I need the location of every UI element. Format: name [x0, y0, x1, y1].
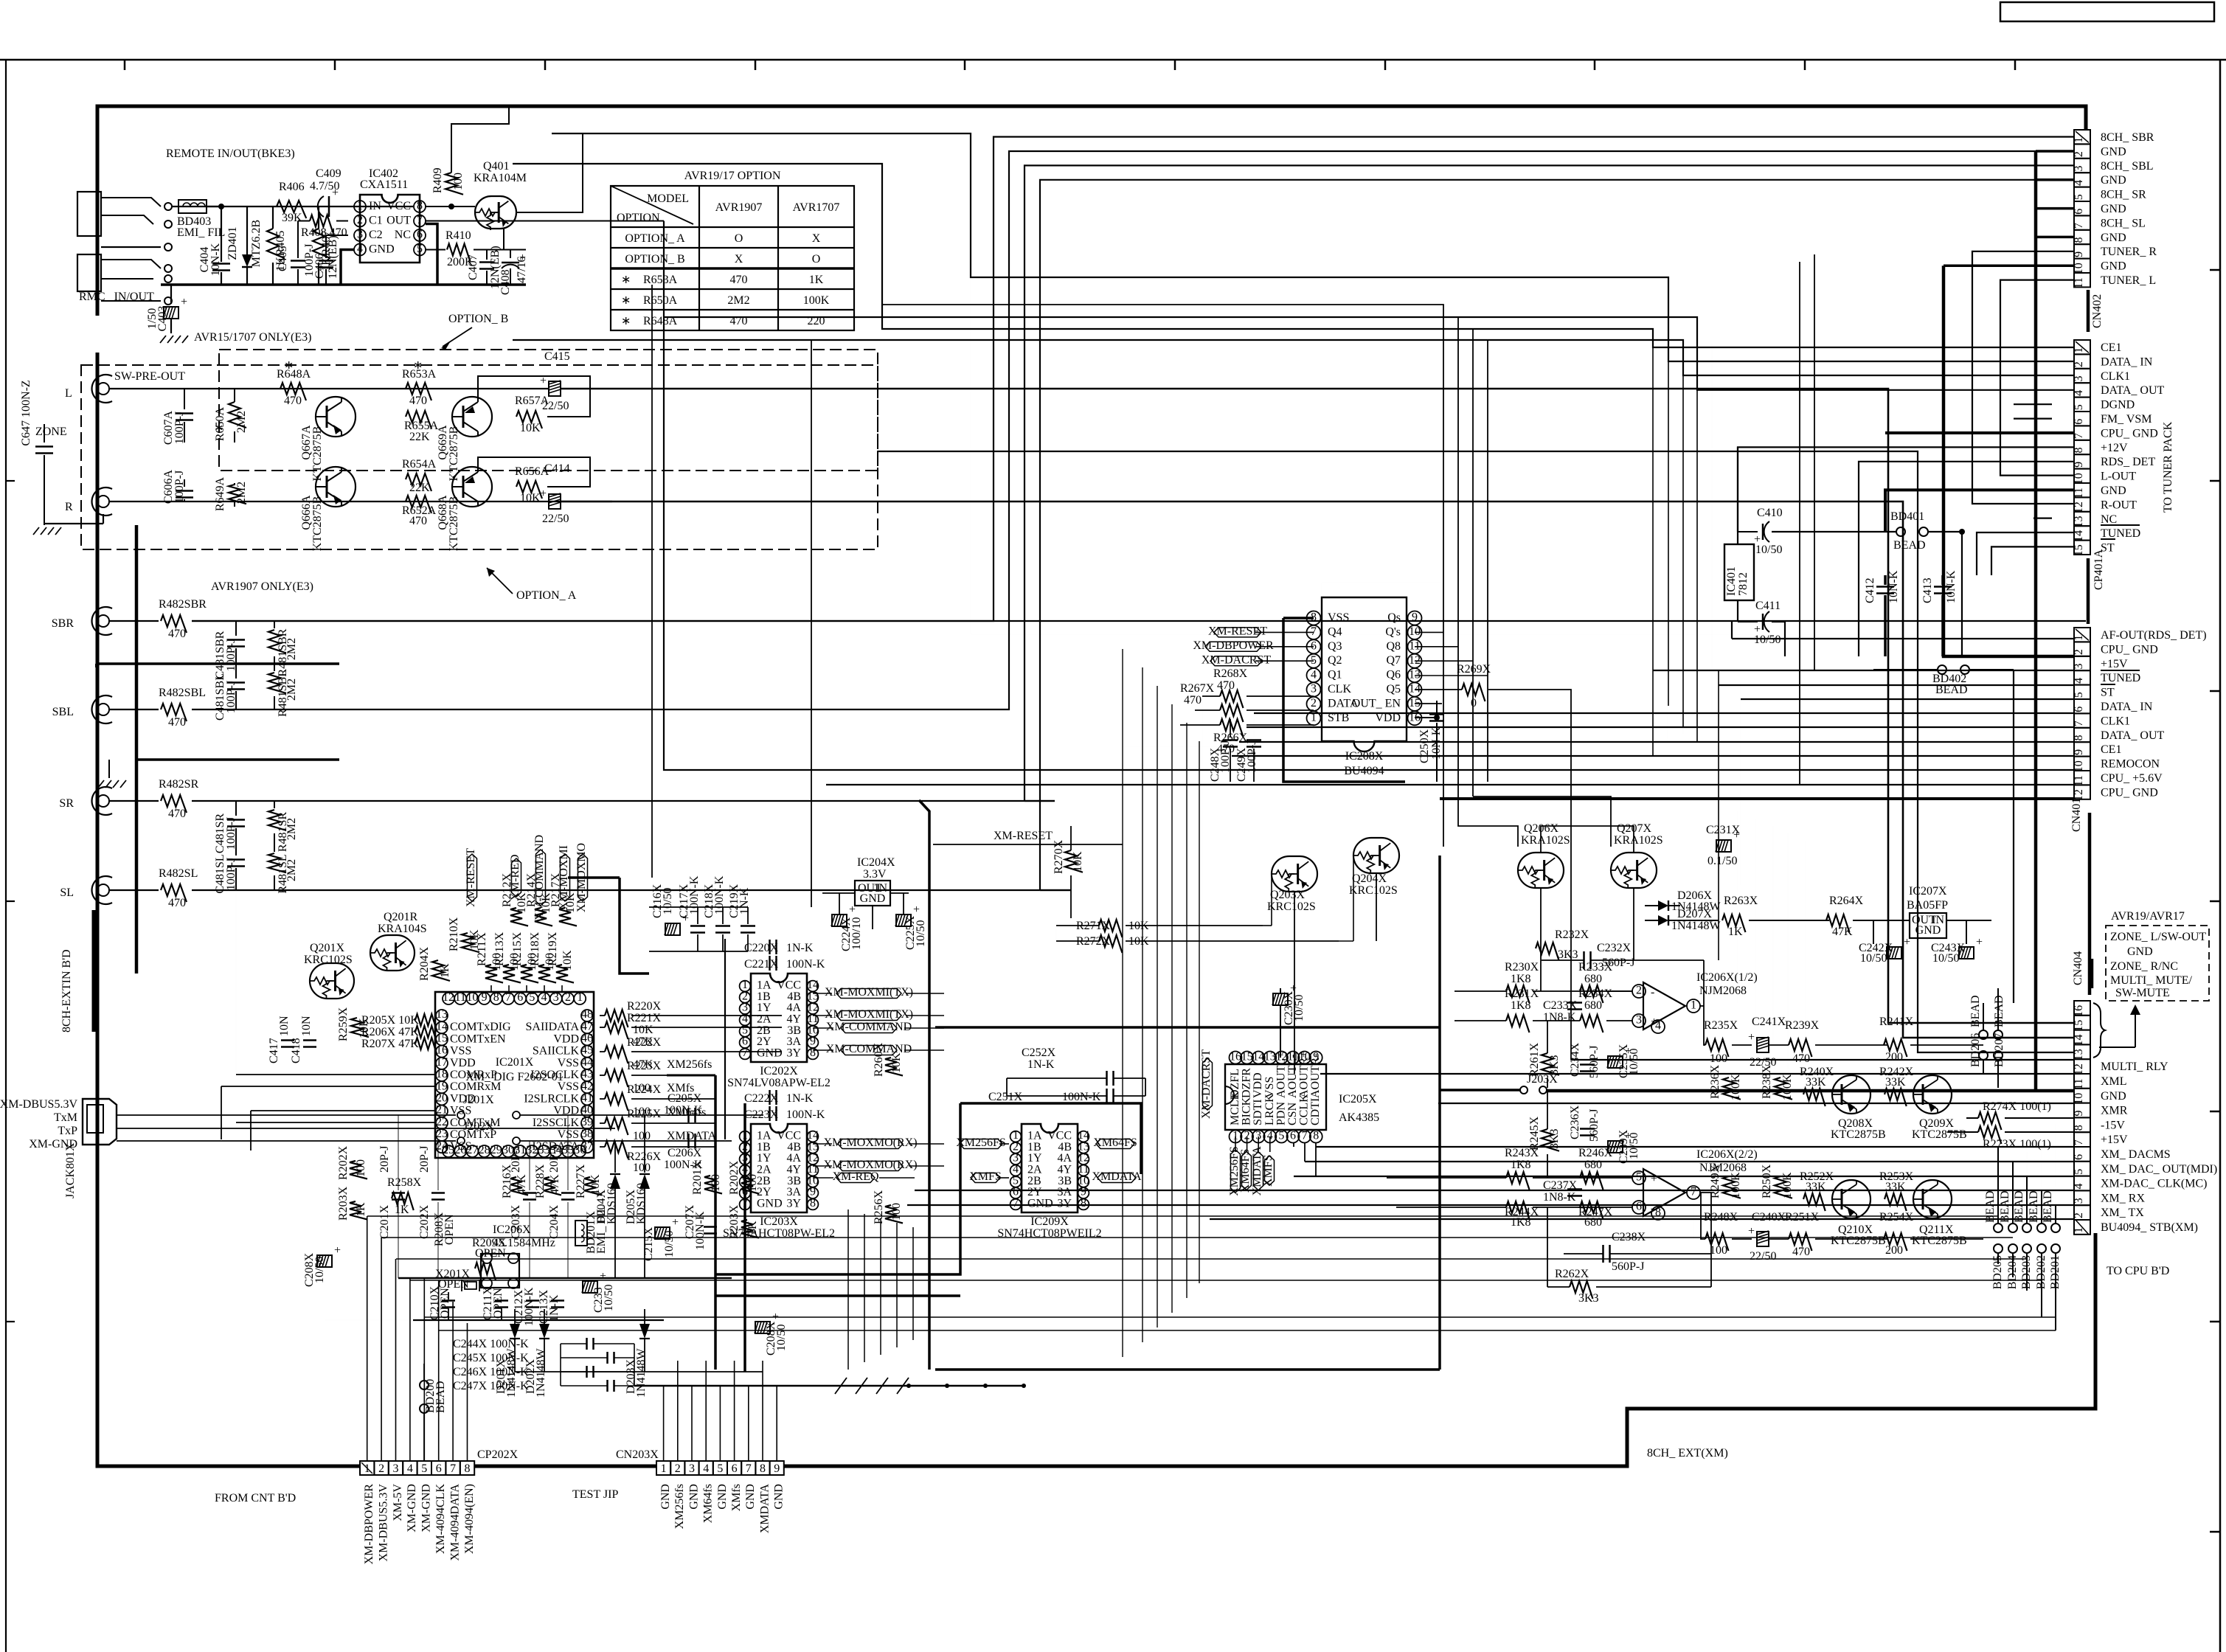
- wire net 8CH GND bus: [2034, 151, 2038, 1091]
- wire net +15V drop: [1718, 670, 1719, 960]
- svg-text:CE1: CE1: [2101, 743, 2121, 756]
- wire SR row right: [192, 800, 1055, 802]
- svg-text:VSS: VSS: [1328, 611, 1349, 624]
- wire bead link: [2012, 1162, 2014, 1224]
- svg-text:0.1/50: 0.1/50: [1707, 855, 1737, 867]
- wire R271X vertical joins: [1055, 926, 1057, 941]
- svg-text:XM64fs: XM64fs: [702, 1484, 715, 1523]
- svg-text:1N-K: 1N-K: [786, 942, 814, 954]
- svg-text:100P-J: 100P-J: [225, 681, 237, 713]
- svg-text:KRA102S: KRA102S: [1521, 834, 1570, 847]
- wires CN203X up: [663, 1386, 665, 1461]
- wire net TUNER_L: [2000, 280, 2074, 476]
- svg-text:C252X: C252X: [1022, 1047, 1056, 1059]
- svg-text:TUNER_ R: TUNER_ R: [2101, 246, 2157, 258]
- svg-text:GND: GND: [1027, 1198, 1053, 1210]
- wire Q203X emitter down: [1294, 892, 1295, 1074]
- pin IC201X-36: [574, 1145, 586, 1157]
- svg-text:680: 680: [1584, 999, 1602, 1012]
- svg-text:AF-OUT(RDS_ DET): AF-OUT(RDS_ DET): [2101, 629, 2207, 642]
- svg-text:GND: GND: [369, 243, 395, 256]
- svg-text:GND: GND: [687, 1484, 700, 1510]
- pin IC201X-48: [581, 1010, 593, 1021]
- svg-text:R202X: R202X: [337, 1145, 350, 1180]
- bracket CN404 pins 16-13: [2093, 1003, 2105, 1058]
- svg-text:GND: GND: [757, 1198, 783, 1210]
- svg-text:1N-K: 1N-K: [1027, 1058, 1055, 1071]
- svg-text:BEAD: BEAD: [1984, 1190, 1997, 1223]
- svg-text:R482SBL: R482SBL: [159, 687, 206, 699]
- svg-text:AVR19/17 OPTION: AVR19/17 OPTION: [684, 170, 781, 182]
- svg-text:XMfs: XMfs: [730, 1484, 743, 1511]
- svg-text:+: +: [1651, 1173, 1657, 1185]
- svg-text:XM_ DACMS: XM_ DACMS: [2101, 1148, 2171, 1161]
- wire bead lower link: [2026, 1253, 2028, 1291]
- svg-text:7: 7: [450, 1462, 456, 1475]
- ground left: [44, 472, 45, 525]
- zener ZD401 MTZ6.2B: [246, 206, 248, 254]
- svg-text:R258X: R258X: [387, 1176, 422, 1189]
- svg-text:OPTION_ A: OPTION_ A: [516, 589, 577, 602]
- pin IC201X-43: [581, 1069, 593, 1081]
- svg-text:VSS: VSS: [450, 1140, 471, 1153]
- svg-text:OPEN: OPEN: [492, 1288, 505, 1319]
- svg-text:29: 29: [490, 1144, 502, 1156]
- svg-text:10K: 10K: [358, 1018, 370, 1038]
- net flag XM-MOXMI(TX) b: [836, 1011, 901, 1021]
- arrow zone labels to CN404: [2135, 1010, 2136, 1047]
- svg-text:XM-RESET: XM-RESET: [1208, 625, 1267, 638]
- svg-text:IC208X: IC208X: [1345, 750, 1384, 763]
- svg-text:R215X: R215X: [511, 931, 524, 966]
- svg-text:XMFS: XMFS: [969, 1170, 1002, 1183]
- svg-text:Q201R: Q201R: [384, 911, 418, 923]
- svg-text:10/50: 10/50: [1628, 1049, 1640, 1075]
- pin IC201X-34: [550, 1145, 562, 1157]
- svg-text:COMTxEN: COMTxEN: [450, 1032, 506, 1045]
- wire long bottom 2: [381, 1237, 2013, 1238]
- svg-text:VSS: VSS: [450, 1045, 471, 1058]
- page border top: [0, 59, 2226, 61]
- svg-text:7: 7: [2073, 721, 2085, 726]
- wire net XM_DAC_CLK: [1294, 1176, 2074, 1177]
- capacitor C219X 1N-K: [747, 907, 749, 924]
- svg-text:20: 20: [436, 1091, 448, 1104]
- capacitor C405: [297, 221, 299, 259]
- svg-text:2M2: 2M2: [727, 294, 749, 307]
- svg-text:XM_ DAC_ OUT(MDI): XM_ DAC_ OUT(MDI): [2101, 1163, 2217, 1176]
- svg-text:470: 470: [409, 395, 427, 407]
- svg-text:Q4: Q4: [1328, 625, 1342, 638]
- svg-text:XM-RESET: XM-RESET: [465, 848, 477, 907]
- connector CN402: [2074, 130, 2090, 144]
- svg-text:2M2: 2M2: [235, 482, 248, 504]
- svg-text:MTZ6.2B: MTZ6.2B: [250, 220, 263, 267]
- wire vert right x2440: [1799, 262, 1800, 785]
- pin IC402-1 IN: [354, 201, 366, 212]
- net flag XM256FS IC209X: [960, 1139, 1002, 1149]
- svg-text:1K: 1K: [355, 1202, 367, 1217]
- svg-text:3: 3: [393, 1462, 399, 1475]
- svg-text:KRA104M: KRA104M: [474, 172, 527, 184]
- wire Q401 out right: [516, 133, 583, 212]
- svg-text:FM_ VSM: FM_ VSM: [2101, 413, 2152, 426]
- pin IC201X-38: [581, 1129, 593, 1141]
- svg-text:CLK: CLK: [1328, 683, 1351, 695]
- svg-text:OUT: OUT: [386, 215, 411, 227]
- wire bead3 up to CN404: [2026, 1152, 2028, 1232]
- svg-text:J203X: J203X: [1527, 1073, 1558, 1086]
- pin IC402-5: [414, 244, 426, 256]
- pin IC201X-21: [436, 1106, 448, 1117]
- svg-text:IC401: IC401: [1725, 566, 1738, 596]
- diodes D201X D202X D203X 1N4148W: [514, 1278, 516, 1331]
- svg-text:TUNED: TUNED: [2101, 672, 2140, 684]
- cable bar CP401A: [2087, 558, 2090, 624]
- svg-text:D207X: D207X: [1677, 908, 1713, 920]
- svg-text:3K3: 3K3: [1548, 1055, 1561, 1075]
- svg-text:XM-DBUS5.3V: XM-DBUS5.3V: [377, 1484, 389, 1562]
- pin IC201X-13: [436, 1010, 448, 1021]
- svg-text:R482SR: R482SR: [159, 778, 199, 791]
- svg-text:R245X: R245X: [1528, 1116, 1541, 1150]
- svg-text:C247X 100N-K: C247X 100N-K: [453, 1380, 529, 1392]
- svg-text:C201X: C201X: [378, 1204, 391, 1239]
- wire net CPU_GND CP401A: [1885, 431, 2074, 434]
- svg-text:L: L: [65, 387, 72, 400]
- transistor Q668A KTC2875B: [452, 467, 492, 507]
- svg-text:C414: C414: [544, 462, 570, 475]
- wire net ZONE_L/SW-OUT: [561, 389, 2074, 1023]
- jack RMC bottom: [77, 254, 101, 291]
- svg-text:680: 680: [1584, 973, 1602, 985]
- svg-text:10/50: 10/50: [1754, 634, 1781, 646]
- svg-text:470: 470: [1792, 1052, 1810, 1065]
- svg-text:XM-GND: XM-GND: [420, 1484, 433, 1533]
- svg-text:43: 43: [581, 1068, 593, 1080]
- svg-text:XMDATA: XMDATA: [758, 1484, 771, 1534]
- wire R row: [109, 501, 612, 502]
- svg-text:13: 13: [1264, 1050, 1276, 1063]
- wire net TUNER_R: [1972, 251, 2074, 504]
- svg-text:CLK1: CLK1: [2101, 370, 2130, 383]
- svg-text:6: 6: [417, 228, 423, 240]
- svg-text:100N-K: 100N-K: [786, 958, 825, 971]
- pin IC208X-4 Q1: [1307, 668, 1321, 682]
- IC IC209X SN74HCT08PWEIL2: [1022, 1124, 1078, 1212]
- svg-text:BEAD: BEAD: [2028, 1190, 2040, 1223]
- svg-text:XM-DBUS5.3V: XM-DBUS5.3V: [0, 1098, 77, 1111]
- svg-text:GND: GND: [744, 1484, 757, 1510]
- svg-text:8CH_ SL: 8CH_ SL: [2101, 217, 2146, 229]
- wire net DATA_IN CN401: [1254, 712, 2074, 714]
- net flag XM-REQ: [836, 1173, 875, 1183]
- svg-text:IC202X: IC202X: [760, 1065, 798, 1077]
- net flag XM-COMMAND a: [841, 1024, 897, 1033]
- svg-text:39: 39: [581, 1116, 593, 1128]
- jack RMC top: [77, 192, 101, 236]
- svg-text:R: R: [65, 501, 73, 513]
- capacitor C408 12N(EB) 47/16: [510, 250, 511, 259]
- svg-text:GND: GND: [2101, 174, 2126, 187]
- svg-text:R650A: R650A: [643, 294, 678, 307]
- pin IC205X-2 BICK: [1241, 1131, 1253, 1143]
- svg-text:100K: 100K: [1781, 1074, 1794, 1100]
- svg-text:44: 44: [581, 1056, 593, 1069]
- wire net XM_DACMS: [1316, 1146, 2074, 1148]
- svg-text:C405: C405: [277, 246, 289, 271]
- svg-text:XM-MOXMO(RX): XM-MOXMO(RX): [823, 1136, 917, 1149]
- bus slashes: [835, 1378, 847, 1394]
- wire SBR row to bundle: [192, 620, 819, 622]
- svg-text:+: +: [1733, 829, 1740, 841]
- svg-text:MULTI_ MUTE/: MULTI_ MUTE/: [2110, 974, 2193, 987]
- wire bead BD206 up: [1983, 1003, 1984, 1030]
- svg-text:R254X: R254X: [1879, 1211, 1914, 1224]
- svg-text:KTC2875B: KTC2875B: [1831, 1128, 1886, 1141]
- capacitor C215X 10/50: [655, 1227, 670, 1239]
- svg-text:AK4385: AK4385: [1339, 1111, 1379, 1124]
- wire net ST CN401: [1741, 698, 2074, 700]
- bead BD402: [1938, 665, 1946, 674]
- wire bead link: [2026, 1176, 2028, 1224]
- svg-text:R211X: R211X: [476, 932, 488, 966]
- wire net CLK1 CN401 drop: [1682, 375, 1684, 720]
- svg-text:CP401A: CP401A: [2092, 549, 2105, 590]
- wire osc bottom rail: [413, 1319, 664, 1321]
- svg-text:SAIICLK: SAIICLK: [533, 1045, 580, 1058]
- svg-text:XM-4094(EN): XM-4094(EN): [463, 1484, 476, 1554]
- pin IC208X-14 Q5: [1408, 683, 1422, 697]
- resistor R482SR 470: [109, 800, 159, 802]
- svg-text:R653A: R653A: [402, 368, 437, 381]
- svg-text:8: 8: [2073, 448, 2085, 454]
- svg-text:R262X: R262X: [1555, 1268, 1589, 1280]
- svg-text:SBL: SBL: [52, 706, 74, 718]
- wire QFP left verticals: [235, 890, 237, 1075]
- svg-text:XM-DBPOWER: XM-DBPOWER: [363, 1484, 375, 1565]
- svg-text:CN203X: CN203X: [616, 1448, 659, 1461]
- wire IC207X rails: [1873, 920, 1874, 944]
- svg-text:1N-K: 1N-K: [738, 887, 751, 914]
- pin IC201X-22: [436, 1117, 448, 1129]
- diode D201X 1N4148W: [514, 1309, 516, 1324]
- svg-text:470: 470: [409, 515, 427, 527]
- connector CN404: [2074, 1001, 2090, 1016]
- svg-text:BD207: BD207: [1993, 1033, 2005, 1067]
- resistor R481SBL 2M2: [274, 664, 275, 671]
- svg-text:5: 5: [529, 991, 535, 1004]
- svg-text:TxM: TxM: [54, 1111, 77, 1124]
- wire vert bundle x2017: [1254, 340, 1488, 782]
- pin IC201X-37: [581, 1141, 593, 1153]
- svg-text:R246X: R246X: [1578, 1147, 1613, 1159]
- svg-text:KTC2875B: KTC2875B: [1831, 1235, 1886, 1247]
- svg-text:100K: 100K: [803, 294, 830, 307]
- svg-text:7: 7: [746, 1462, 752, 1475]
- wire SBR gnd row: [96, 662, 339, 665]
- svg-text:BA05FP: BA05FP: [1907, 899, 1948, 912]
- svg-text:6: 6: [1290, 1129, 1296, 1142]
- svg-text:XMFS: XMFS: [1262, 1154, 1275, 1187]
- wire thick horizontal lower: [935, 1368, 1440, 1371]
- svg-text:AVR19/AVR17: AVR19/AVR17: [2111, 910, 2185, 923]
- svg-text:RDS_ DET: RDS_ DET: [2101, 456, 2155, 468]
- pin IC201X-12: [443, 993, 454, 1004]
- svg-text:R223X: R223X: [627, 1060, 662, 1072]
- capacitor C235X 10/50: [1608, 1056, 1623, 1068]
- svg-text:7: 7: [2073, 223, 2085, 229]
- transistor Q666A KTC2875B: [316, 467, 356, 507]
- regulator IC401 7812: [1724, 544, 1754, 600]
- svg-text:6: 6: [732, 1462, 738, 1475]
- pin IC201X-8: [490, 993, 502, 1004]
- svg-text:15: 15: [1241, 1050, 1253, 1063]
- svg-text:2: 2: [675, 1462, 681, 1475]
- diode D203X 1N4148W: [644, 1309, 645, 1324]
- pin IC201X-11: [454, 993, 466, 1004]
- svg-text:IC205X: IC205X: [1339, 1093, 1377, 1106]
- svg-text:R204X: R204X: [418, 946, 431, 981]
- svg-text:R261X: R261X: [1528, 1042, 1541, 1077]
- capacitor C606A 100P-J: [184, 479, 185, 487]
- wire QFP left feeds: [236, 1074, 435, 1075]
- svg-text:R653A: R653A: [643, 274, 678, 286]
- pin IC205X-11 AOUTL-: [1287, 1052, 1300, 1064]
- svg-text:8CH_ SBL: 8CH_ SBL: [2101, 160, 2154, 173]
- svg-text:5: 5: [2073, 404, 2085, 410]
- svg-text:R251X: R251X: [1785, 1211, 1820, 1224]
- pin IC208X-1 STB: [1307, 711, 1321, 725]
- svg-text:17: 17: [436, 1056, 448, 1069]
- svg-text:9: 9: [482, 991, 488, 1004]
- jack SBL: [92, 695, 112, 723]
- svg-text:45.1584MHz: 45.1584MHz: [493, 1237, 555, 1249]
- svg-text:LRCK: LRCK: [1263, 1094, 1276, 1125]
- wire IC204X rails: [822, 892, 855, 894]
- svg-text:C204X: C204X: [548, 1204, 561, 1239]
- wire vert right x2460: [1814, 254, 1815, 670]
- thick bar 8CH-EXTIN: [92, 910, 96, 1032]
- pin IC208X-6 Q3: [1307, 639, 1321, 653]
- pin IC201X-32: [526, 1145, 538, 1157]
- pin IC205X-12 AOUTL+: [1275, 1052, 1288, 1064]
- svg-text:8: 8: [2073, 237, 2085, 243]
- svg-text:GND: GND: [2101, 260, 2126, 273]
- svg-text:ZONE_ L/SW-OUT: ZONE_ L/SW-OUT: [2110, 931, 2206, 943]
- capacitor C250X 10N-K: [1415, 717, 1437, 718]
- svg-text:48: 48: [581, 1008, 593, 1021]
- svg-text:2M2: 2M2: [285, 678, 298, 701]
- svg-text:Q2: Q2: [1328, 654, 1342, 667]
- pin IC201X-40: [581, 1106, 593, 1117]
- svg-text:VSS: VSS: [558, 1080, 579, 1093]
- op-amp IC206X(1/2) NJM2068: [1643, 982, 1685, 1030]
- svg-text:22K: 22K: [409, 431, 430, 443]
- svg-text:RMC_ IN/OUT: RMC_ IN/OUT: [79, 291, 154, 303]
- svg-text:100: 100: [1710, 1052, 1727, 1065]
- wire bead link: [2041, 1190, 2042, 1224]
- svg-text:4: 4: [541, 991, 547, 1004]
- svg-text:∗: ∗: [621, 274, 631, 286]
- net flag XM-MOXMO(RX) a: [838, 1139, 903, 1149]
- pin IC402-7 OUT: [414, 215, 426, 227]
- capacitor C239X 10/50: [1608, 1141, 1623, 1153]
- IC IC202X SN74LV08APW-EL2: [751, 974, 807, 1062]
- svg-text:5: 5: [1636, 1170, 1642, 1183]
- svg-text:GND: GND: [2101, 203, 2126, 215]
- pin IC201X-27: [466, 1145, 478, 1157]
- wire net DATA_IN CN401 drop: [1668, 361, 1669, 706]
- capacitor C251X 100N-K: [1106, 1089, 1108, 1103]
- net flag XM-MOXMO(RX) b: [838, 1162, 903, 1171]
- svg-text:R230X: R230X: [1505, 961, 1539, 974]
- diode D206X 1N4148W: [1645, 905, 1658, 906]
- svg-text:1N4148W: 1N4148W: [1671, 920, 1721, 932]
- wire net CE1 loop: [513, 164, 2074, 347]
- svg-text:C409: C409: [316, 167, 341, 180]
- svg-text:BEAD: BEAD: [1969, 995, 1982, 1027]
- wire net 8CH_SBL: [819, 151, 2074, 709]
- svg-text:X: X: [812, 232, 821, 245]
- svg-text:2: 2: [357, 214, 363, 226]
- svg-text:8: 8: [810, 1197, 816, 1209]
- svg-text:4: 4: [1311, 668, 1317, 681]
- svg-text:NC: NC: [2101, 513, 2117, 526]
- wire vert flagnet 5: [912, 1227, 914, 1340]
- wire SBL row right: [192, 709, 819, 710]
- svg-text:PDN: PDN: [1275, 1102, 1287, 1125]
- svg-text:CPU_ GND: CPU_ GND: [2101, 786, 2158, 799]
- svg-text:7: 7: [2073, 1139, 2085, 1145]
- svg-text:C246X 100N-K: C246X 100N-K: [453, 1366, 529, 1378]
- svg-text:10K: 10K: [520, 422, 541, 434]
- svg-text:+: +: [1904, 936, 1910, 948]
- svg-text:470: 470: [168, 808, 186, 820]
- pin IC201X-24: [436, 1141, 448, 1153]
- pin IC205X-16 DZFL: [1230, 1052, 1242, 1064]
- svg-text:XM-GND: XM-GND: [406, 1484, 418, 1533]
- wire stub DGND: [2014, 403, 2052, 405]
- svg-text:100P-J: 100P-J: [225, 858, 237, 890]
- wire net +12V: [1738, 447, 2074, 532]
- svg-text:+: +: [672, 1216, 679, 1229]
- pin IC208X-2 DATA: [1307, 697, 1321, 711]
- svg-text:8: 8: [760, 1462, 766, 1475]
- pin IC402-4 GND: [354, 244, 366, 256]
- wire verticals 2331-2480: [1737, 811, 1738, 1003]
- overline ST CN401: [2101, 684, 2115, 685]
- capacitor C233 10/50: [583, 1281, 597, 1293]
- svg-text:R234X: R234X: [1578, 988, 1613, 1000]
- svg-text:6: 6: [1636, 1200, 1642, 1212]
- ground symbol C403: [160, 336, 166, 343]
- wire OUT_EN up: [1322, 583, 1442, 704]
- svg-text:+: +: [540, 375, 547, 387]
- svg-text:SL: SL: [60, 886, 74, 899]
- svg-text:XM-REQ: XM-REQ: [832, 1170, 879, 1183]
- svg-text:SDTI: SDTI: [1252, 1099, 1264, 1125]
- svg-text:6: 6: [517, 991, 523, 1004]
- pin IC201X-14: [436, 1021, 448, 1033]
- svg-text:C203X: C203X: [510, 1204, 522, 1239]
- svg-text:R260X: R260X: [873, 1042, 885, 1077]
- wire bead5 up to CN404: [2055, 1124, 2056, 1232]
- wire Q203X base from R271X: [1263, 925, 1272, 926]
- thick VSS bus IC208X: [1283, 617, 1314, 619]
- svg-text:1K: 1K: [809, 274, 824, 286]
- net flag XM-DACRST IC205X: [1200, 1049, 1213, 1119]
